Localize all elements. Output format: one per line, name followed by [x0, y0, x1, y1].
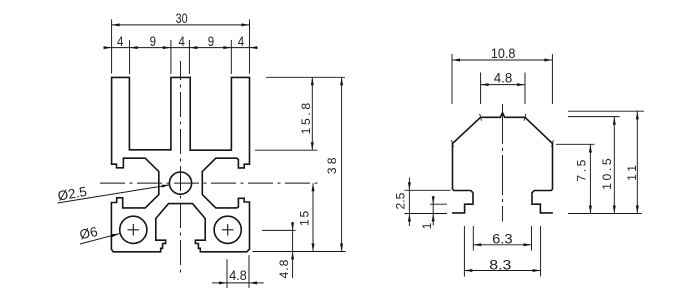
- svg-text:4: 4: [179, 33, 186, 49]
- svg-text:8.3: 8.3: [489, 257, 511, 273]
- svg-text:10.5: 10.5: [600, 156, 614, 190]
- svg-text:9: 9: [150, 33, 157, 49]
- svg-text:15.8: 15.8: [299, 100, 313, 134]
- svg-text:2.5: 2.5: [394, 192, 408, 209]
- svg-text:4.8: 4.8: [277, 259, 291, 279]
- svg-text:10.8: 10.8: [491, 45, 516, 61]
- svg-text:30: 30: [176, 10, 188, 26]
- svg-text:7.5: 7.5: [574, 157, 588, 182]
- svg-text:9: 9: [208, 33, 215, 49]
- svg-text:6.3: 6.3: [492, 230, 513, 246]
- svg-text:38: 38: [325, 154, 339, 174]
- svg-text:11: 11: [625, 162, 639, 181]
- svg-text:4: 4: [238, 33, 245, 49]
- svg-text:4: 4: [117, 33, 124, 49]
- svg-text:1: 1: [420, 222, 434, 229]
- svg-text:4.8: 4.8: [229, 267, 247, 283]
- svg-text:4.8: 4.8: [494, 70, 513, 86]
- svg-text:15: 15: [298, 209, 312, 226]
